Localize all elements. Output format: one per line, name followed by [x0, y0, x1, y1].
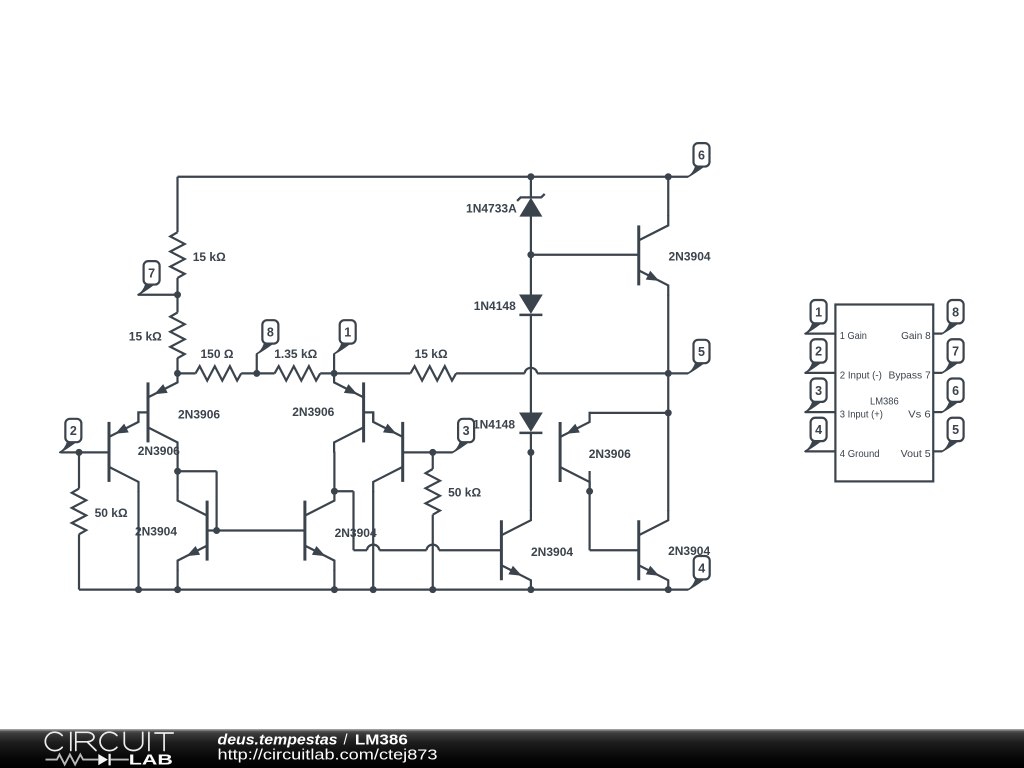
svg-text:2 Input (-): 2 Input (-) [840, 370, 882, 381]
svg-text:LAB: LAB [129, 752, 173, 768]
svg-text:2N3904: 2N3904 [668, 544, 710, 558]
svg-text:150 Ω: 150 Ω [201, 347, 234, 361]
svg-text:2N3904: 2N3904 [531, 545, 573, 559]
svg-text:LM386: LM386 [355, 733, 408, 749]
svg-text:15 kΩ: 15 kΩ [129, 330, 162, 344]
svg-text:2N3904: 2N3904 [135, 525, 177, 539]
svg-text:2: 2 [70, 424, 77, 438]
svg-text:2N3906: 2N3906 [589, 447, 631, 461]
svg-text:5: 5 [952, 423, 959, 437]
svg-text:4: 4 [698, 561, 705, 575]
svg-text:1: 1 [344, 326, 351, 340]
svg-text:2N3904: 2N3904 [669, 249, 711, 263]
svg-text:1N4148: 1N4148 [473, 418, 515, 432]
svg-text:8: 8 [267, 326, 274, 340]
svg-text:Bypass 7: Bypass 7 [889, 370, 931, 381]
svg-text:3: 3 [463, 424, 470, 438]
svg-text:http://circuitlab.com/ctej873: http://circuitlab.com/ctej873 [218, 748, 438, 764]
svg-text:50 kΩ: 50 kΩ [448, 485, 481, 499]
svg-text:6: 6 [952, 384, 959, 398]
svg-text:7: 7 [148, 266, 155, 280]
svg-text:4 Ground: 4 Ground [840, 449, 880, 460]
svg-text:15 kΩ: 15 kΩ [193, 250, 226, 264]
svg-text:50 kΩ: 50 kΩ [95, 506, 128, 520]
svg-text:8: 8 [952, 305, 959, 319]
svg-text:Gain 8: Gain 8 [901, 331, 931, 342]
svg-text:4: 4 [815, 423, 822, 437]
svg-text:2N3906: 2N3906 [178, 407, 220, 421]
svg-text:Vout 5: Vout 5 [901, 449, 931, 460]
svg-text:2N3904: 2N3904 [335, 526, 377, 540]
svg-text:1N4733A: 1N4733A [466, 201, 517, 215]
svg-text:3 Input (+): 3 Input (+) [840, 410, 883, 421]
svg-text:5: 5 [698, 345, 705, 359]
svg-text:1 Gain: 1 Gain [840, 331, 867, 342]
svg-text:2N3906: 2N3906 [292, 405, 334, 419]
svg-text:deus.tempestas: deus.tempestas [218, 733, 338, 749]
svg-text:LM386: LM386 [870, 397, 899, 408]
svg-text:1.35 kΩ: 1.35 kΩ [274, 347, 317, 361]
svg-text:3: 3 [815, 384, 822, 398]
svg-text:1N4148: 1N4148 [474, 299, 516, 313]
svg-text:1: 1 [815, 305, 822, 319]
svg-text:6: 6 [698, 148, 705, 162]
svg-text:2: 2 [815, 345, 822, 359]
svg-text:15 kΩ: 15 kΩ [415, 347, 448, 361]
svg-text:7: 7 [952, 345, 959, 359]
svg-text:Vs 6: Vs 6 [908, 410, 931, 421]
svg-text:2N3906: 2N3906 [138, 444, 180, 458]
